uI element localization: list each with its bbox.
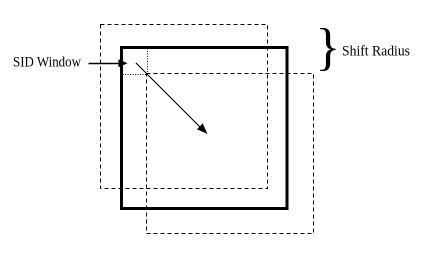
svg-text:SID Window: SID Window (13, 55, 81, 71)
SID Window pointer line (89, 63, 121, 65)
diagonal shift arrow head (197, 123, 208, 134)
dashed shifted window (upper-left) (101, 25, 268, 189)
dotted corner line vertical (147, 46, 149, 75)
SID Window pointer arrowhead (119, 59, 128, 67)
svg-text:Shift Radius: Shift Radius (342, 44, 410, 60)
solid SID window square (122, 48, 288, 209)
dashed shifted window (lower-right) (147, 74, 314, 234)
dotted corner line horizontal (120, 74, 148, 76)
svg-text:}: } (315, 19, 340, 76)
diagonal shift arrow shaft (136, 63, 202, 129)
